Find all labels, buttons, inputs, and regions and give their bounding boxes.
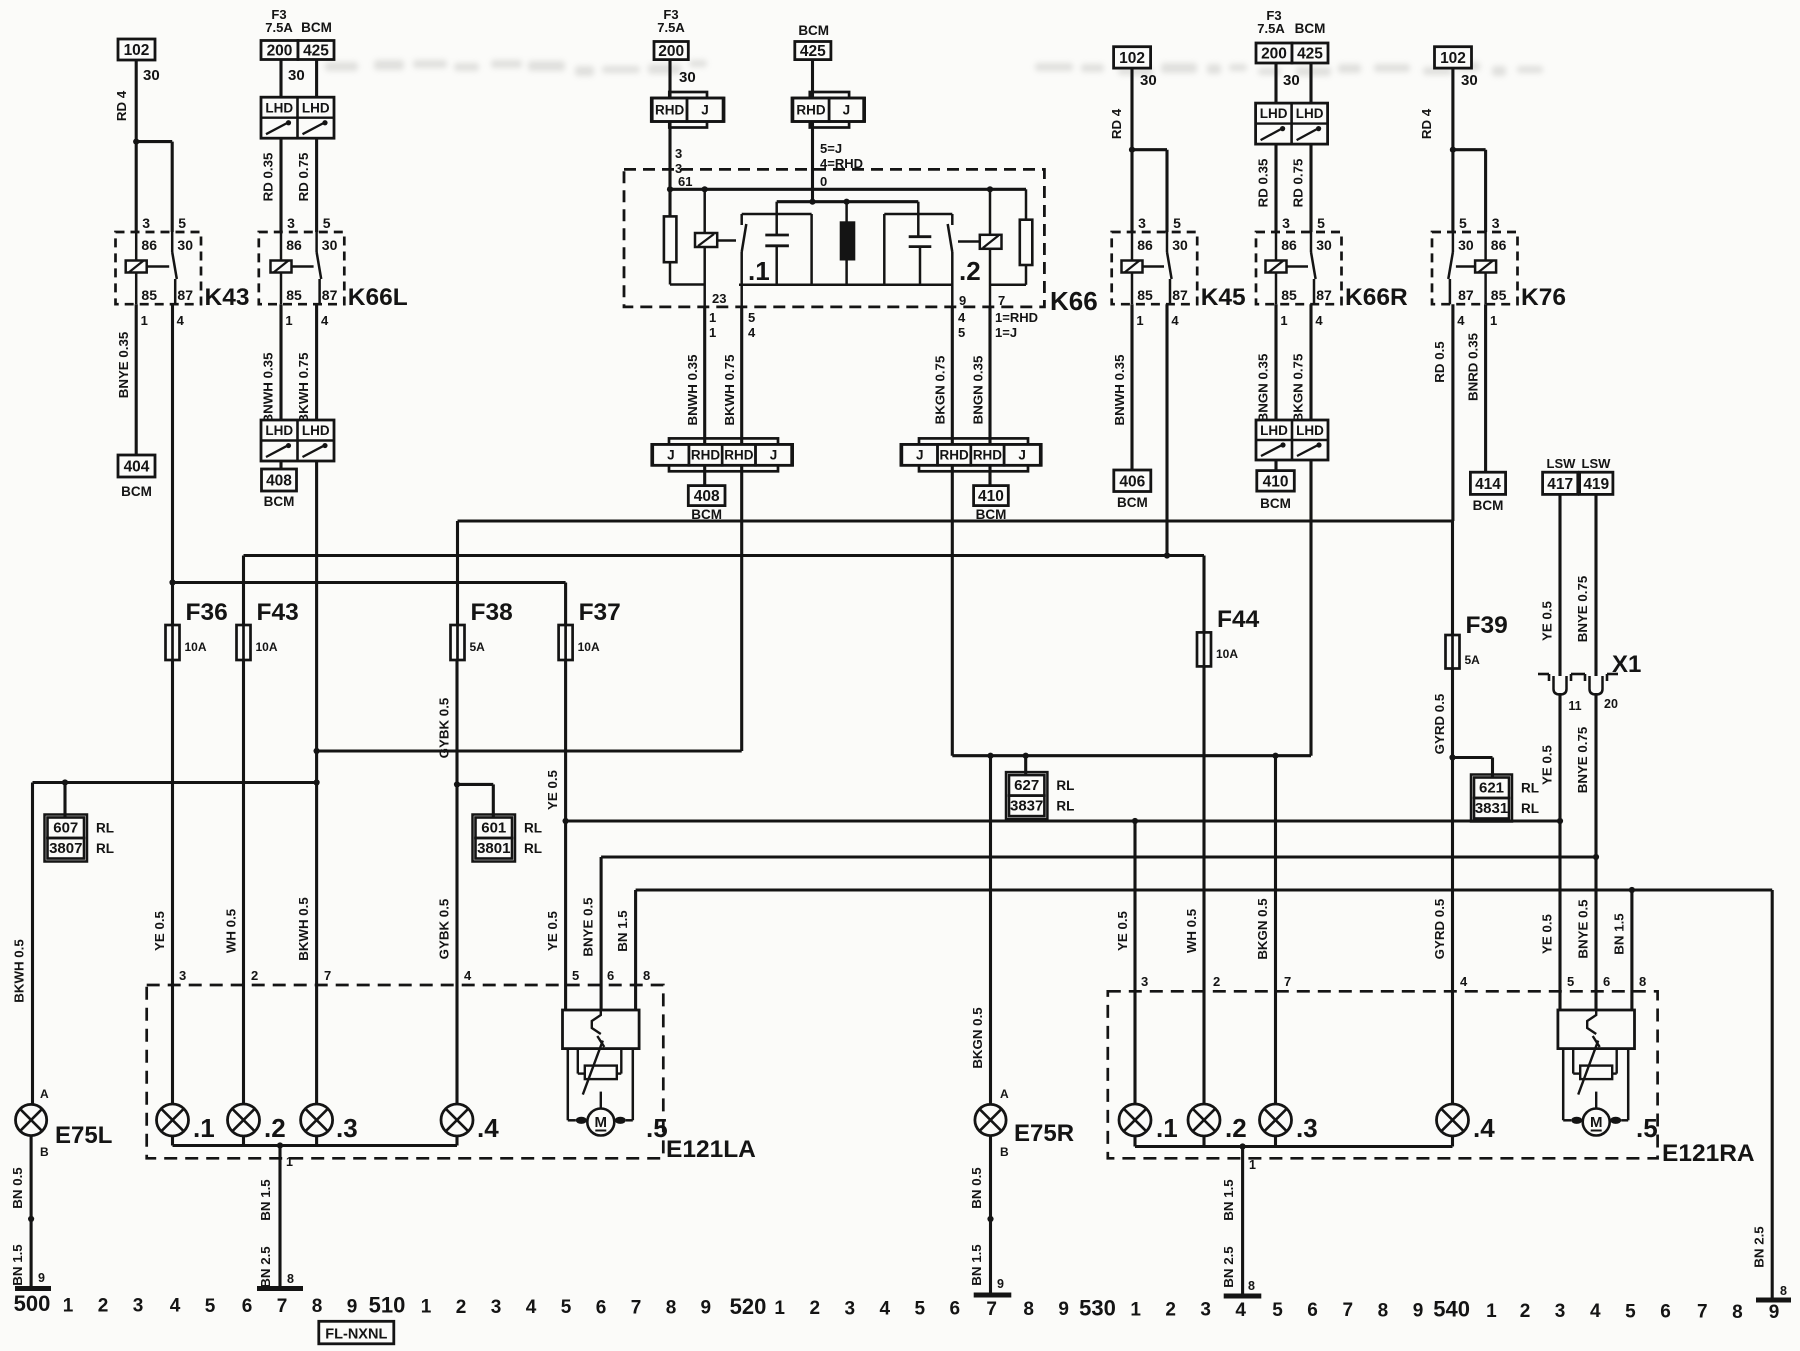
wire BKWH 0.5 bus E to lamp E75L (31, 783, 34, 1105)
wire BNYE 0.5 bus G to pin6 E121LA (600, 857, 603, 1010)
connector 102 (left) (118, 39, 155, 60)
svg-text:530: 530 (1079, 1295, 1116, 1320)
connector 419 (1580, 472, 1613, 494)
svg-text:5: 5 (1459, 215, 1467, 231)
wire BKGN 0.75 down to bus D-right corner (951, 465, 954, 755)
connector 410 BCM (right) (1257, 471, 1295, 492)
svg-text:RD 0.75: RD 0.75 (296, 152, 311, 201)
svg-text:BNYE 0.75: BNYE 0.75 (1575, 726, 1590, 793)
svg-text:85: 85 (1491, 287, 1507, 303)
wire BKGN 0.75 down to bus D-right corner (1309, 460, 1312, 756)
svg-text:1: 1 (1280, 313, 1287, 328)
fuse F44 10A (1197, 632, 1211, 666)
K66 internal top bus (670, 188, 1026, 191)
wire YE 0.5 from X1 to bus F (1558, 693, 1561, 821)
svg-text:BKWH 0.75: BKWH 0.75 (722, 354, 737, 426)
svg-text:9: 9 (347, 1296, 358, 1317)
svg-text:1: 1 (286, 1155, 293, 1169)
svg-text:BN 0.5: BN 0.5 (969, 1167, 984, 1209)
svg-text:BN 1.5: BN 1.5 (969, 1244, 984, 1286)
svg-text:30: 30 (1140, 72, 1157, 89)
svg-text:BCM: BCM (301, 20, 332, 35)
svg-text:.1: .1 (1156, 1113, 1178, 1143)
svg-text:3: 3 (287, 215, 295, 231)
K66 coil 2 (980, 235, 1002, 249)
wire YE 0.5 F37 to pin5 E121LA (564, 660, 567, 1010)
svg-text:3: 3 (675, 146, 682, 161)
wire branch to 621 connector (1453, 756, 1493, 759)
svg-text:9: 9 (38, 1271, 45, 1285)
svg-text:5: 5 (205, 1296, 216, 1317)
svg-text:A: A (1000, 1087, 1009, 1101)
wire BKWH 0.75 K66 contact.1 to RHD/J (740, 307, 743, 445)
wire 425 to RHD connector (811, 60, 814, 98)
lamp E121LA.4 (441, 1104, 473, 1136)
svg-text:10A: 10A (578, 640, 600, 654)
svg-text:F38: F38 (471, 599, 513, 626)
K66 resistor left (664, 216, 677, 262)
fuse F37 10A (559, 625, 573, 660)
relay K45 box (1112, 232, 1198, 304)
svg-text:J: J (1018, 448, 1026, 463)
wire BKWH 0.75 down to bus D and lamp .3 (315, 461, 318, 1104)
svg-text:BN 1.5: BN 1.5 (615, 910, 630, 952)
wire BNGN 0.35 K66 pin7 to RHD/J (988, 307, 991, 445)
svg-text:1: 1 (285, 313, 292, 328)
svg-text:3: 3 (491, 1297, 502, 1318)
svg-text:F37: F37 (579, 599, 621, 626)
connector 601/3801 RL (476, 818, 513, 839)
svg-text:BCM: BCM (264, 494, 295, 509)
svg-text:F36: F36 (186, 599, 228, 626)
svg-text:5: 5 (1173, 215, 1181, 231)
svg-text:1: 1 (709, 325, 716, 340)
svg-text:3: 3 (142, 215, 150, 231)
ground bar E75L (15, 1286, 51, 1291)
wire RD 0.35 to K66R pin 3 (1274, 144, 1277, 232)
svg-text:.3: .3 (336, 1113, 358, 1143)
svg-text:2: 2 (1213, 974, 1220, 989)
svg-text:RD 4: RD 4 (114, 90, 129, 121)
svg-text:1: 1 (1486, 1301, 1497, 1322)
svg-text:BNGN 0.35: BNGN 0.35 (971, 355, 986, 424)
lamp E121RA.3 (1260, 1104, 1292, 1136)
svg-text:BCM: BCM (1117, 495, 1148, 510)
svg-text:4: 4 (748, 325, 756, 340)
svg-text:K66R: K66R (1345, 284, 1408, 311)
fuse F39 5A (1446, 635, 1460, 669)
wire YE 0.5 F36 to lamp E121LA.1 (171, 660, 174, 1104)
svg-text:YE 0.5: YE 0.5 (545, 910, 560, 951)
svg-text:F43: F43 (257, 599, 299, 626)
svg-text:6: 6 (1603, 974, 1610, 989)
svg-text:102: 102 (1119, 50, 1145, 67)
lamp E121LA.1 (157, 1104, 189, 1136)
svg-text:404: 404 (124, 459, 150, 476)
svg-text:3837: 3837 (1010, 798, 1043, 815)
relay K66L coil (271, 261, 292, 273)
svg-text:520: 520 (730, 1294, 767, 1319)
svg-text:.2: .2 (959, 256, 981, 286)
svg-text:J: J (843, 103, 851, 118)
K66 coil 1 (695, 233, 717, 247)
svg-text:510: 510 (369, 1293, 406, 1318)
svg-text:3: 3 (845, 1298, 856, 1319)
svg-text:8: 8 (287, 1272, 294, 1286)
svg-text:K43: K43 (205, 284, 250, 311)
svg-text:8: 8 (1780, 1284, 1787, 1298)
svg-text:RL: RL (1521, 781, 1539, 796)
svg-text:9: 9 (959, 293, 966, 308)
svg-text:LHD: LHD (1296, 423, 1324, 438)
wire RD 4 from 102 to K76 (1451, 68, 1454, 232)
wire BNWH 0.35 K66 pin23 to J/RHD (703, 307, 706, 445)
svg-text:1=RHD: 1=RHD (995, 310, 1038, 325)
actuator E121RA.5 (1558, 1010, 1635, 1049)
svg-text:5: 5 (1625, 1301, 1636, 1322)
svg-text:3: 3 (179, 968, 186, 983)
connector 425 (K66R) (1292, 43, 1328, 63)
wire RD 4 from 102 to K43 pin 3 (135, 60, 138, 232)
wire to 627 connector (1024, 756, 1027, 775)
svg-text:5: 5 (1567, 974, 1574, 989)
connector group J RHD RHD J (center right) (919, 438, 1028, 471)
wires 200/425 to LHD connector (279, 60, 282, 98)
bus wire B (F43 to F44) (244, 554, 1205, 557)
svg-text:.2: .2 (264, 1113, 286, 1143)
svg-text:30: 30 (1458, 237, 1474, 253)
wire to 607 connector (63, 783, 66, 818)
svg-text:BCM: BCM (1473, 498, 1504, 513)
svg-text:4: 4 (464, 968, 472, 983)
K66 internal bottom bus (739, 284, 952, 287)
svg-text:WH 0.5: WH 0.5 (224, 908, 239, 953)
bus wire E (to E75L) (33, 781, 317, 784)
wire WH 0.5 F43 to lamp E121LA.2 (242, 660, 245, 1104)
svg-text:3: 3 (133, 1296, 144, 1317)
wire RD 0.75 to K66R pin 5 (1309, 144, 1312, 232)
svg-text:1: 1 (1136, 313, 1143, 328)
wire 200 to RHD connector (668, 60, 671, 98)
svg-text:RL: RL (524, 821, 542, 836)
ground bar E75R (974, 1293, 1012, 1298)
svg-text:M: M (595, 1114, 608, 1131)
svg-text:4: 4 (1590, 1301, 1601, 1322)
svg-text:LSW: LSW (1547, 456, 1577, 471)
svg-text:3: 3 (1555, 1301, 1566, 1322)
svg-text:5: 5 (1272, 1300, 1283, 1321)
svg-text:BN 1.5: BN 1.5 (1221, 1179, 1236, 1221)
svg-text:425: 425 (1297, 46, 1323, 63)
svg-text:BNYE 0.35: BNYE 0.35 (116, 331, 131, 398)
lamp E75R (975, 1104, 1006, 1135)
ground bar E121RA (1224, 1294, 1262, 1299)
svg-text:4: 4 (170, 1296, 181, 1317)
svg-text:7.5A: 7.5A (657, 20, 685, 35)
svg-text:K66: K66 (1050, 286, 1098, 316)
svg-text:601: 601 (481, 820, 506, 837)
K66 contact .1 (742, 213, 812, 216)
svg-text:85: 85 (1281, 287, 1297, 303)
svg-text:RHD: RHD (724, 448, 753, 463)
wire BNYE 0.75 from 419 to X1 pin 20 (1594, 494, 1597, 676)
svg-text:86: 86 (1491, 237, 1507, 253)
svg-text:GYBK 0.5: GYBK 0.5 (437, 898, 452, 959)
svg-text:7: 7 (631, 1297, 642, 1318)
svg-text:BN 2.5: BN 2.5 (1221, 1246, 1236, 1288)
svg-text:YE 0.5: YE 0.5 (1540, 744, 1555, 785)
svg-text:5: 5 (323, 215, 331, 231)
svg-text:30: 30 (679, 69, 696, 86)
wire YE 0.5 bus F to lamp E121RA.1 (1133, 821, 1136, 1104)
wire into K66 pin 61 (668, 122, 671, 217)
svg-text:86: 86 (141, 237, 157, 253)
relay K66R box (1256, 232, 1342, 304)
connector X1 (1538, 673, 1549, 676)
svg-text:RL: RL (96, 821, 114, 836)
svg-text:FL-NXNL: FL-NXNL (325, 1327, 387, 1343)
svg-text:4: 4 (1235, 1300, 1246, 1321)
svg-text:200: 200 (658, 43, 684, 60)
svg-text:BKWH 0.75: BKWH 0.75 (296, 352, 311, 424)
svg-text:4: 4 (321, 313, 329, 328)
svg-text:2: 2 (1520, 1301, 1531, 1322)
svg-text:4: 4 (526, 1297, 537, 1318)
wire RHD to 408 center (703, 465, 706, 485)
svg-text:86: 86 (286, 237, 302, 253)
svg-text:200: 200 (267, 43, 293, 60)
svg-text:30: 30 (1283, 72, 1300, 89)
svg-text:30: 30 (143, 67, 160, 84)
K66 contact .2 (951, 214, 954, 225)
svg-text:.4: .4 (1473, 1113, 1495, 1143)
svg-text:8: 8 (1732, 1302, 1743, 1323)
node junction on K45 RD4 wire (1129, 147, 1135, 153)
wire BN ground E121RA to track 530/4 (1241, 1147, 1244, 1297)
bus wire F (YE 0.5) (566, 819, 1560, 822)
svg-text:7: 7 (324, 968, 331, 983)
wire WH 0.5 F44 to lamp E121RA.2 (1202, 666, 1205, 1104)
svg-text:LHD: LHD (265, 100, 293, 115)
fuse F38 5A (451, 625, 465, 660)
svg-text:.5: .5 (646, 1113, 668, 1143)
wire GYBK 0.5 F38 to lamp E121LA.4 (455, 660, 458, 1104)
wires to LHD (K66R) (1274, 63, 1277, 103)
svg-text:M: M (1590, 1114, 1603, 1131)
fuse F36 10A (166, 625, 180, 660)
svg-text:6: 6 (1660, 1301, 1671, 1322)
svg-text:607: 607 (53, 820, 78, 837)
svg-text:BN 2.5: BN 2.5 (1752, 1226, 1767, 1268)
svg-text:9: 9 (1769, 1302, 1780, 1323)
connector 408 BCM (center) (688, 486, 725, 506)
bus wire D left (BKWH 0.75) (317, 749, 742, 752)
svg-text:BKGN 0.5: BKGN 0.5 (970, 1007, 985, 1069)
svg-text:7.5A: 7.5A (265, 20, 293, 35)
wire RD 0.75 to K66L pin 5 (315, 138, 318, 232)
svg-text:410: 410 (978, 488, 1004, 505)
svg-text:BCM: BCM (121, 484, 152, 499)
wire K43 pin4 down to fuse F36 (171, 304, 174, 625)
svg-text:7: 7 (1343, 1300, 1354, 1321)
svg-text:J: J (770, 448, 778, 463)
connector 200 (K66R) (1256, 43, 1292, 63)
svg-text:2: 2 (1165, 1300, 1176, 1321)
svg-text:BKGN 0.75: BKGN 0.75 (933, 355, 948, 424)
svg-text:30: 30 (177, 237, 193, 253)
svg-text:6: 6 (596, 1297, 607, 1318)
wire BKGN 0.5 bus D to lamp E75R (989, 756, 992, 1105)
svg-text:B: B (40, 1145, 49, 1159)
wire YE 0.5 bus F to pin5 E121RA (1558, 821, 1561, 1010)
svg-text:23: 23 (712, 291, 726, 306)
ground bar E121LA (257, 1286, 303, 1291)
svg-text:11: 11 (1568, 699, 1581, 713)
wire RD 0.5 K76 pin4 down to bus A / F39 (1451, 304, 1454, 521)
K66 resistor right (1020, 220, 1033, 265)
relay K76 coil (1475, 261, 1496, 273)
lamp E121LA.2 (228, 1104, 260, 1136)
wire BNWH 0.35 K66L pin1 to LHD (279, 304, 282, 420)
connector group J RHD RHD J (center left) (669, 438, 778, 471)
connector 607/3807 RL (48, 818, 85, 839)
svg-text:F44: F44 (1217, 606, 1260, 633)
svg-text:200: 200 (1261, 46, 1287, 63)
connector 200 (K66L) (261, 41, 298, 60)
svg-text:RHD: RHD (655, 103, 684, 118)
connector 425 (center) (795, 42, 831, 60)
K66 internal node line right of contact .1 (810, 214, 813, 285)
svg-text:627: 627 (1014, 777, 1039, 794)
connector LHD LHD (K66R top) (1256, 103, 1328, 144)
lamp E75L (16, 1104, 47, 1135)
svg-text:414: 414 (1475, 476, 1501, 493)
svg-text:GYRD 0.5: GYRD 0.5 (1432, 898, 1447, 959)
wire BNGN 0.35 K66R pin1 to LHD (1274, 304, 1277, 420)
svg-text:RD 0.75: RD 0.75 (1291, 158, 1306, 207)
bus wire H (BN ground) (636, 888, 1773, 891)
connector 425 (K66L) (298, 41, 334, 60)
connector 627/3837 RL (1009, 775, 1044, 796)
svg-text:BNYE 0.75: BNYE 0.75 (1575, 575, 1590, 642)
svg-text:B: B (1000, 1145, 1009, 1159)
svg-text:BN 2.5: BN 2.5 (258, 1246, 273, 1288)
svg-text:9: 9 (701, 1298, 712, 1319)
svg-text:1: 1 (1249, 1158, 1256, 1172)
wire RHD to 410 center (988, 465, 991, 485)
svg-text:J: J (701, 103, 709, 118)
connector 406 BCM (1114, 470, 1151, 492)
ground bar far right (1756, 1298, 1791, 1303)
wire RD 0.35 to K66L pin 3 (279, 138, 282, 232)
relay K66L box (259, 232, 345, 304)
svg-text:.5: .5 (1636, 1113, 1658, 1143)
svg-text:.3: .3 (1296, 1113, 1318, 1143)
svg-text:3: 3 (1492, 215, 1500, 231)
K66 resistor center (filled) (841, 223, 854, 260)
svg-text:9: 9 (1058, 1299, 1069, 1320)
relay K43 coil (126, 261, 147, 273)
svg-text:425: 425 (800, 43, 826, 60)
svg-text:.1: .1 (748, 256, 770, 286)
svg-text:3: 3 (1138, 215, 1146, 231)
svg-text:87: 87 (1172, 287, 1188, 303)
svg-text:3801: 3801 (477, 840, 510, 857)
svg-text:BNYE 0.5: BNYE 0.5 (1576, 899, 1591, 959)
actuator E121LA.5 (563, 1010, 640, 1049)
wire BNRD 0.35 K76 pin1 to 414 (1484, 304, 1487, 472)
wire BN 1.5 bus H to pin8 E121LA (634, 890, 637, 1010)
svg-text:1=J: 1=J (995, 325, 1017, 340)
svg-text:20: 20 (1604, 697, 1618, 711)
svg-text:5: 5 (178, 215, 186, 231)
relay K66R coil (1266, 261, 1287, 273)
svg-text:7: 7 (277, 1296, 288, 1317)
headlamp unit E121RA box (1108, 991, 1658, 1158)
svg-text:8: 8 (312, 1296, 323, 1317)
svg-text:8: 8 (643, 968, 650, 983)
relay module K66 box (624, 169, 1044, 307)
wire BNYE 0.75 from X1 to bus G (1594, 693, 1597, 857)
svg-text:LHD: LHD (1260, 423, 1288, 438)
svg-text:F39: F39 (1466, 612, 1508, 639)
svg-text:8: 8 (1639, 974, 1646, 989)
svg-text:LHD: LHD (302, 100, 330, 115)
svg-text:BKGN 0.75: BKGN 0.75 (1291, 353, 1306, 422)
svg-text:61: 61 (678, 174, 692, 189)
svg-text:6: 6 (950, 1299, 961, 1320)
svg-text:RD 4: RD 4 (1109, 108, 1124, 139)
svg-text:5: 5 (958, 325, 965, 340)
svg-text:LHD: LHD (1296, 106, 1324, 121)
svg-text:86: 86 (1281, 237, 1297, 253)
svg-text:410: 410 (1263, 473, 1289, 490)
K66 internal mid bus (777, 200, 919, 203)
svg-text:LHD: LHD (1260, 106, 1288, 121)
svg-text:3831: 3831 (1475, 800, 1508, 817)
svg-text:E75L: E75L (55, 1122, 112, 1149)
svg-text:RHD: RHD (940, 448, 969, 463)
svg-text:BNWH 0.35: BNWH 0.35 (685, 354, 700, 426)
svg-text:7: 7 (998, 293, 1005, 308)
bus wire C (F36 to F37) (173, 581, 566, 584)
svg-text:GYRD 0.5: GYRD 0.5 (1432, 693, 1447, 754)
wire branch to K43 pin 5 (136, 140, 172, 143)
ground bus E121RA (1133, 1136, 1136, 1147)
lamp E121RA.1 (1119, 1104, 1151, 1136)
svg-text:9: 9 (997, 1277, 1004, 1291)
svg-text:406: 406 (1119, 473, 1145, 490)
svg-text:102: 102 (124, 42, 150, 59)
svg-text:LHD: LHD (302, 423, 330, 438)
svg-text:K76: K76 (1521, 284, 1566, 311)
svg-text:1: 1 (774, 1298, 785, 1319)
wire BNYE 0.5 bus G to pin6 E121RA (1594, 857, 1597, 1010)
svg-text:1: 1 (63, 1295, 74, 1316)
svg-text:4: 4 (1460, 974, 1468, 989)
svg-text:RHD: RHD (691, 448, 720, 463)
svg-text:BCM: BCM (1295, 21, 1326, 36)
svg-text:621: 621 (1479, 780, 1504, 797)
svg-text:RL: RL (1521, 801, 1539, 816)
wire branch to 601 connector (457, 783, 493, 786)
wire RD 4 from 102 to K45 (1130, 68, 1133, 232)
bus wire G (BNYE) (601, 855, 1596, 858)
svg-text:RD 0.5: RD 0.5 (1432, 341, 1447, 383)
wire K45 pin4 down to bus B (1165, 304, 1168, 555)
svg-text:BNGN 0.35: BNGN 0.35 (1256, 353, 1271, 422)
svg-text:3807: 3807 (49, 840, 82, 857)
